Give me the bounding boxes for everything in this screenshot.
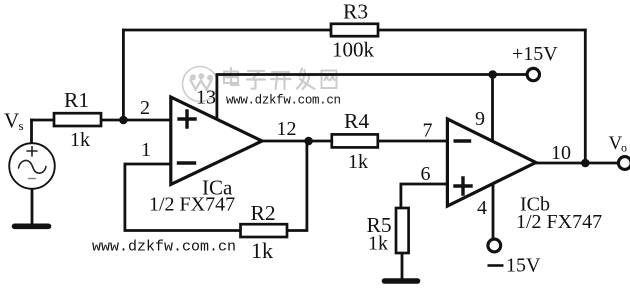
svg-text:1/2 FX747: 1/2 FX747	[516, 211, 602, 233]
svg-text:1/2 FX747: 1/2 FX747	[149, 194, 235, 216]
svg-text:R3: R3	[343, 0, 368, 24]
svg-text:+15V: +15V	[512, 43, 558, 65]
svg-text:R1: R1	[64, 88, 89, 112]
svg-text:12: 12	[277, 118, 297, 140]
svg-text:1k: 1k	[348, 151, 368, 173]
svg-text:9: 9	[475, 108, 485, 130]
svg-text:V: V	[4, 109, 19, 133]
svg-text:o: o	[621, 141, 627, 155]
svg-text:1: 1	[141, 139, 151, 161]
svg-text:4: 4	[477, 197, 487, 219]
svg-text:13: 13	[196, 87, 216, 109]
svg-text:15V: 15V	[506, 255, 541, 277]
svg-text:2: 2	[140, 97, 150, 119]
svg-text:100k: 100k	[332, 38, 375, 62]
svg-text:1k: 1k	[70, 129, 90, 151]
svg-text:10: 10	[551, 142, 571, 164]
svg-text:www.dzkfw.com.cn: www.dzkfw.com.cn	[92, 239, 236, 256]
svg-text:6: 6	[421, 163, 431, 185]
svg-text:R4: R4	[344, 109, 369, 133]
svg-text:7: 7	[423, 120, 433, 142]
svg-text:www.dzkfw.com.cn: www.dzkfw.com.cn	[226, 94, 341, 108]
svg-text:R2: R2	[251, 201, 276, 225]
svg-text:s: s	[19, 118, 24, 133]
svg-text:1k: 1k	[368, 233, 388, 255]
svg-text:1k: 1k	[251, 238, 273, 263]
